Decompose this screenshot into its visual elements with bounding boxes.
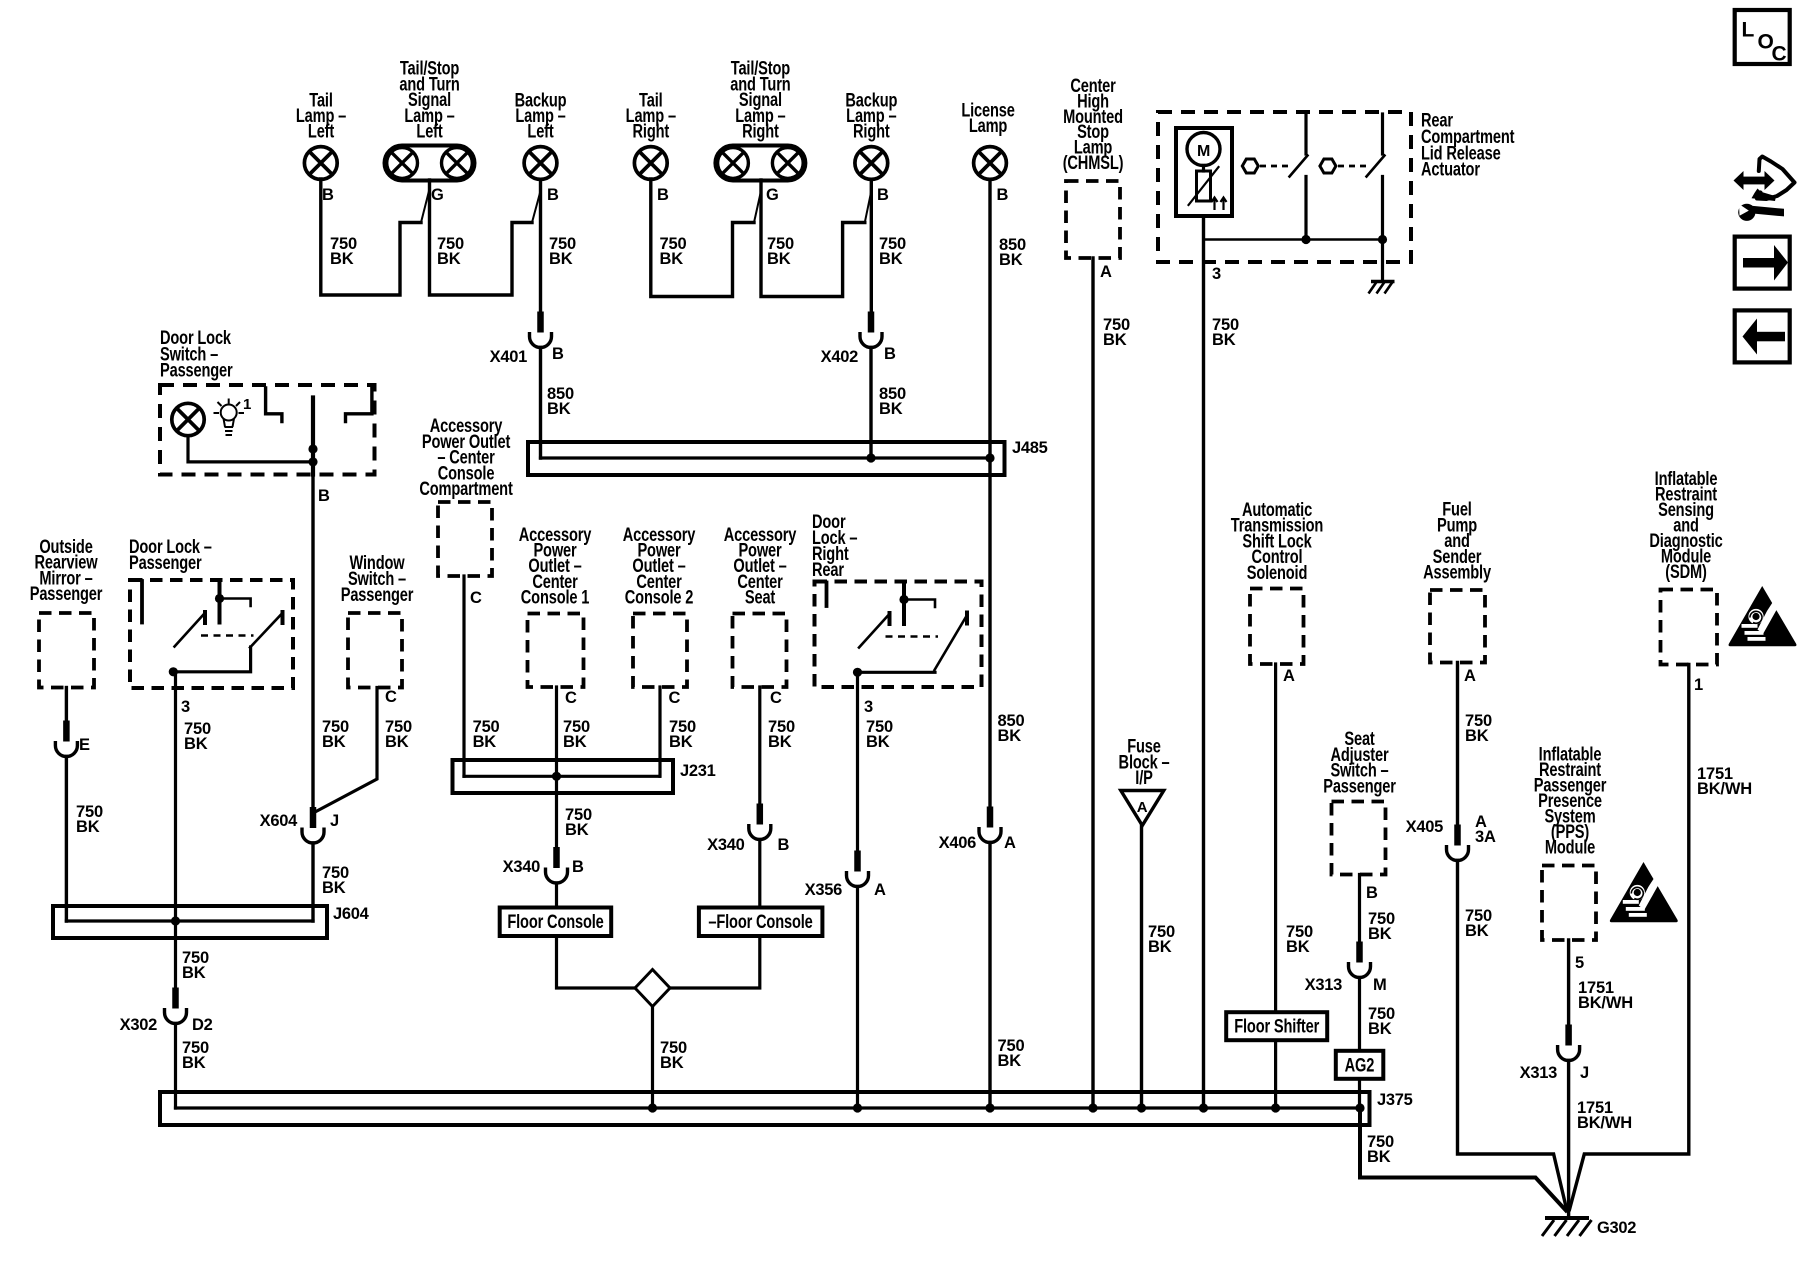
junction dot J375 x=1275	[1271, 1103, 1280, 1112]
junction dot door lock common	[169, 667, 178, 676]
svg-text:BK/WH: BK/WH	[1697, 780, 1752, 798]
svg-text:Console 2: Console 2	[625, 585, 693, 608]
svg-text:BK/WH: BK/WH	[1577, 1114, 1632, 1132]
ground symbol actuator	[1371, 280, 1395, 284]
connector X604	[302, 807, 324, 843]
svg-text:Left: Left	[308, 119, 335, 142]
svg-text:BK: BK	[182, 1054, 206, 1072]
switch S2 upper wire	[1381, 114, 1384, 154]
svg-text:BK/WH: BK/WH	[1578, 994, 1633, 1012]
svg-text:X313: X313	[1305, 976, 1342, 994]
door lock passenger pole wire	[218, 581, 222, 623]
svg-text:BK: BK	[437, 250, 461, 268]
svg-text:X340: X340	[707, 836, 744, 854]
svg-text:BK: BK	[1368, 1020, 1392, 1038]
svg-text:Right: Right	[633, 119, 670, 142]
floor shifter label box	[1226, 1012, 1327, 1040]
junction dot door lock RR pole	[899, 595, 908, 604]
junction dot door lock RR common	[853, 668, 862, 677]
component window switch passenger box	[348, 613, 402, 688]
svg-text:B: B	[877, 186, 889, 204]
svg-text:Left: Left	[416, 120, 443, 143]
thermal protector in motor	[1197, 171, 1211, 201]
wire outlet console 1 through J231 to X340	[555, 687, 558, 852]
lamp E3 backup lamp left	[524, 147, 557, 180]
svg-text:BK: BK	[768, 733, 792, 751]
svg-text:3: 3	[864, 698, 873, 716]
svg-text:G302: G302	[1597, 1219, 1636, 1237]
svg-text:BK: BK	[660, 1054, 684, 1072]
component CHMSL box	[1066, 181, 1120, 258]
motor M1 circle	[1187, 133, 1220, 166]
svg-text:G: G	[766, 186, 779, 204]
wire tail lamp right to stop lamp	[651, 179, 754, 297]
wire outlet console 2 to J231	[658, 687, 661, 776]
svg-text:BK: BK	[669, 733, 693, 751]
door lock blade 2	[281, 612, 285, 623]
svg-text:–Floor Console: –Floor Console	[708, 910, 812, 933]
svg-text:L: L	[1742, 19, 1755, 42]
wire X302 to J375	[174, 1024, 177, 1109]
door lock RR pole wire	[902, 583, 906, 625]
svg-text:B: B	[318, 487, 330, 505]
svg-text:B: B	[884, 345, 896, 363]
wire actuator to ground	[1381, 240, 1384, 282]
svg-text:BK: BK	[330, 250, 354, 268]
svg-text:BK: BK	[1368, 925, 1392, 943]
svg-text:BK: BK	[1212, 331, 1236, 349]
svg-text:I/P: I/P	[1135, 766, 1152, 789]
component SDM box	[1661, 590, 1718, 665]
wire X401 to J485	[539, 348, 542, 459]
wire X405 to ground junction	[1458, 861, 1567, 1210]
door lock passenger left stub	[140, 581, 144, 623]
svg-text:Seat: Seat	[745, 585, 776, 608]
connector X406	[979, 807, 1001, 843]
svg-text:BK: BK	[999, 251, 1023, 269]
wire AG2 to J375	[1358, 1079, 1361, 1108]
svg-text:BK: BK	[76, 818, 100, 836]
door lock RR mechanical link	[886, 635, 939, 638]
connector X340 seat	[749, 804, 771, 840]
switch S1 dashed link	[1260, 165, 1289, 168]
svg-text:M: M	[1197, 143, 1210, 160]
junction dot J375 x=1093	[1088, 1103, 1097, 1112]
motor M1 box	[1176, 128, 1232, 216]
svg-text:J: J	[1580, 1064, 1589, 1082]
svg-text:Left: Left	[527, 119, 554, 142]
svg-text:1: 1	[1694, 676, 1703, 694]
LOC box icon	[1735, 10, 1790, 64]
wire X340 seat to floor console box	[758, 840, 761, 908]
svg-text:X356: X356	[805, 881, 842, 899]
connector X302	[165, 988, 187, 1024]
switch S1 lower wire	[1304, 177, 1307, 240]
direction arrows	[1212, 198, 1218, 211]
wire outlet compartment to J231	[462, 576, 465, 776]
junction dot J375 x=990	[985, 1103, 994, 1112]
svg-text:1: 1	[243, 396, 251, 413]
svg-text:BK: BK	[660, 250, 684, 268]
wire door lock passenger to J604	[174, 672, 177, 921]
switch S1 blade	[1290, 156, 1308, 177]
svg-text:Passenger: Passenger	[30, 582, 103, 605]
component door lock right rear box	[815, 582, 982, 688]
junction dot J604	[171, 916, 180, 925]
lamp E7 license lamp	[974, 147, 1007, 180]
junction dot pole upper	[308, 444, 317, 453]
wire tail lamp left to stop lamp	[321, 179, 421, 295]
svg-text:Rear: Rear	[812, 558, 844, 581]
left contact of switch	[266, 388, 282, 422]
switch S2 lower wire	[1381, 177, 1384, 240]
svg-text:J: J	[330, 812, 339, 830]
svg-text:G: G	[431, 186, 444, 204]
svg-text:AG2: AG2	[1345, 1053, 1375, 1076]
svg-text:X604: X604	[260, 812, 298, 830]
svg-text:X401: X401	[490, 348, 527, 366]
svg-text:BK: BK	[473, 733, 497, 751]
svg-text:BK: BK	[182, 964, 206, 982]
lamp E2 tail/stop and turn signal lamp left	[385, 146, 475, 181]
lamp E1 tail lamp left	[304, 147, 337, 180]
svg-text:Passenger: Passenger	[341, 583, 414, 606]
svg-text:BK: BK	[866, 733, 890, 751]
SRS warning triangle SDM	[1729, 586, 1797, 646]
previous page arrow icon	[1735, 310, 1790, 362]
wire floor console to splice	[557, 936, 638, 988]
svg-text:X302: X302	[120, 1016, 157, 1034]
wire SDM to ground junction	[1570, 665, 1689, 1210]
wire solenoid to J375	[1274, 664, 1277, 1108]
svg-text:C: C	[565, 689, 577, 707]
connector X340 console	[546, 847, 568, 883]
junction dot J231	[552, 772, 561, 781]
svg-text:BK: BK	[998, 1052, 1022, 1070]
door lock blade 1	[203, 612, 207, 623]
wire X340 to floor console box	[555, 883, 558, 908]
wire CHMSL to J375	[1091, 258, 1094, 1108]
junction dot S1	[1301, 235, 1310, 244]
wire motor down to J375	[1202, 216, 1205, 1108]
svg-text:Passenger: Passenger	[1323, 774, 1396, 797]
connector X313 J	[1558, 1025, 1580, 1061]
wire X402 to J485	[869, 348, 872, 459]
component seat adjuster switch box	[1332, 802, 1386, 875]
component outlet compartment box	[438, 502, 492, 576]
svg-text:BK: BK	[385, 733, 409, 751]
wire backup left down to X401	[539, 180, 542, 313]
svg-text:BK: BK	[565, 821, 589, 839]
svg-text:3: 3	[181, 698, 190, 716]
wire X604 to J604	[311, 843, 314, 921]
wire splice to J375	[651, 1007, 654, 1109]
junction dot J375 x=1360	[1355, 1103, 1364, 1112]
svg-text:Right: Right	[853, 119, 890, 142]
svg-text:5: 5	[1575, 954, 1584, 972]
component shift lock solenoid box	[1250, 589, 1304, 665]
lamp in door lock switch	[172, 403, 204, 435]
svg-text:BK: BK	[1465, 727, 1489, 745]
lamp E5 tail/stop and turn signal lamp right	[715, 146, 805, 181]
svg-text:B: B	[572, 858, 584, 876]
svg-text:Actuator: Actuator	[1421, 158, 1480, 181]
wire window switch to X604	[315, 688, 377, 813]
svg-text:BK: BK	[1286, 938, 1310, 956]
door lock pole branch	[220, 599, 251, 607]
right contact of switch	[346, 388, 372, 422]
junction dot pole lamp wire	[308, 457, 317, 466]
junction dot S2	[1378, 235, 1387, 244]
switch pole	[311, 398, 315, 475]
wire X356 to J375	[856, 887, 859, 1109]
fuse block triangle	[1121, 791, 1164, 826]
svg-text:J375: J375	[1377, 1091, 1413, 1109]
svg-text:A: A	[1464, 667, 1476, 685]
component fuel pump box	[1430, 590, 1485, 663]
svg-text:Lamp: Lamp	[969, 114, 1007, 137]
svg-text:X406: X406	[939, 834, 976, 852]
svg-text:X402: X402	[821, 348, 858, 366]
svg-text:BK: BK	[563, 733, 587, 751]
actuator internal bus wire	[1204, 238, 1383, 241]
wire license lamp down through J485	[988, 180, 991, 807]
junction block J604	[53, 906, 327, 938]
wire X406 to J375	[988, 843, 991, 1109]
svg-text:C: C	[470, 589, 482, 607]
svg-text:J231: J231	[680, 762, 716, 780]
wire J375 output to ground	[1360, 1108, 1566, 1211]
motor M1 stub	[1202, 166, 1205, 172]
svg-text:A: A	[874, 881, 886, 899]
SRS warning triangle PPS	[1610, 862, 1678, 922]
svg-text:Console 1: Console 1	[521, 585, 590, 608]
svg-text:C: C	[1772, 43, 1787, 66]
component outlet center seat box	[733, 614, 787, 688]
wire lamp to pole	[188, 436, 313, 462]
junction block J485	[528, 442, 1005, 475]
wire door lock RR to X356	[856, 673, 859, 861]
double arrow and wrench icon	[1734, 157, 1795, 221]
svg-text:BK: BK	[322, 879, 346, 897]
connector X313 M	[1349, 942, 1371, 978]
lamp E4 tail lamp right	[634, 147, 667, 180]
floor console label box 2	[699, 908, 823, 937]
door lock RR left stub	[825, 583, 829, 607]
svg-text:B: B	[547, 186, 559, 204]
svg-text:BK: BK	[998, 727, 1022, 745]
door lock RR common wire	[858, 671, 936, 674]
component outlet console 2 box	[633, 614, 687, 688]
wire backup right down to X402	[870, 180, 873, 313]
connector X402	[860, 312, 882, 348]
splice diamond	[635, 970, 670, 1007]
svg-text:Passenger: Passenger	[129, 551, 202, 574]
svg-text:B: B	[1366, 884, 1378, 902]
door lock RR blade 2	[965, 613, 969, 624]
svg-text:A: A	[1283, 667, 1295, 685]
lamp E6 backup lamp right	[855, 147, 888, 180]
component door lock passenger box	[130, 580, 293, 688]
svg-text:Right: Right	[742, 120, 779, 143]
svg-text:Passenger: Passenger	[160, 358, 233, 381]
component outside rearview mirror box	[39, 613, 94, 688]
wire seat adjuster to X313	[1358, 875, 1361, 956]
junction dot license on J485	[985, 453, 994, 462]
svg-text:BK: BK	[547, 400, 571, 418]
svg-text:B: B	[322, 186, 334, 204]
junction dot X402 on J485	[866, 453, 875, 462]
svg-text:3: 3	[1212, 265, 1221, 283]
svg-text:BK: BK	[1148, 938, 1172, 956]
wire PPS to X313 J	[1567, 940, 1570, 1038]
floor console label box	[500, 908, 612, 937]
svg-text:BK: BK	[1367, 1148, 1391, 1166]
switch S2 dashed link	[1338, 165, 1366, 168]
door lock RR blade 1	[888, 613, 892, 624]
svg-text:Compartment: Compartment	[419, 477, 513, 500]
svg-text:J604: J604	[333, 905, 370, 923]
svg-text:BK: BK	[322, 733, 346, 751]
svg-text:Floor Shifter: Floor Shifter	[1234, 1014, 1319, 1037]
svg-text:BK: BK	[879, 400, 903, 418]
svg-text:BK: BK	[1465, 922, 1489, 940]
svg-text:BK: BK	[767, 250, 791, 268]
svg-text:C: C	[385, 688, 397, 706]
junction dot J375 x=857	[853, 1103, 862, 1112]
junction dot J375 x=652	[648, 1103, 657, 1112]
bulb symbol	[214, 399, 245, 436]
component rear compartment lid release actuator box	[1158, 112, 1411, 262]
ground symbol G302	[1545, 1216, 1589, 1220]
svg-text:A: A	[1100, 263, 1112, 281]
svg-text:A: A	[1137, 799, 1148, 816]
door lock RR pole branch	[904, 600, 935, 608]
svg-text:J485: J485	[1012, 439, 1048, 457]
svg-text:BK: BK	[1103, 331, 1127, 349]
AG2 label box	[1336, 1051, 1384, 1079]
junction dot J375 x=1141	[1137, 1103, 1146, 1112]
svg-text:(SDM): (SDM)	[1665, 560, 1706, 583]
svg-text:X405: X405	[1406, 818, 1443, 836]
junction block J375	[160, 1092, 1370, 1125]
component outlet console 1 box	[528, 614, 584, 688]
svg-text:C: C	[669, 689, 681, 707]
junction dot door lock pole	[215, 594, 224, 603]
wire X313 J to ground	[1567, 1061, 1570, 1216]
junction block J231	[453, 760, 674, 793]
connector X401	[530, 312, 552, 348]
svg-text:BK: BK	[184, 735, 208, 753]
next page arrow icon	[1735, 237, 1790, 289]
wire fuel pump to X405	[1456, 663, 1459, 839]
svg-text:A: A	[1004, 834, 1016, 852]
svg-text:E: E	[79, 736, 90, 754]
svg-text:Module: Module	[1545, 835, 1595, 858]
svg-text:BK: BK	[879, 250, 903, 268]
svg-text:X313: X313	[1520, 1064, 1557, 1082]
door lock common wire	[173, 647, 250, 672]
switch S1 hex contact	[1242, 159, 1258, 173]
wire mirror connector to J604	[65, 757, 68, 922]
svg-text:Assembly: Assembly	[1423, 561, 1491, 584]
connector X356	[847, 851, 869, 887]
component PPS box	[1542, 866, 1596, 941]
wire stop/turn right to backup pin	[761, 180, 865, 297]
wire mirror to connector E	[65, 688, 68, 730]
svg-text:C: C	[770, 689, 782, 707]
svg-text:B: B	[778, 836, 790, 854]
component door lock switch passenger box	[160, 385, 375, 475]
connector X405	[1447, 825, 1469, 861]
wire J604 to X302	[174, 921, 177, 988]
svg-text:X340: X340	[503, 858, 540, 876]
connector E mirror	[55, 721, 77, 757]
svg-text:B: B	[552, 345, 564, 363]
junction dot J375 x=1203	[1199, 1103, 1208, 1112]
switch S2 blade	[1367, 156, 1385, 177]
svg-text:BK: BK	[549, 250, 573, 268]
door lock mechanical link	[201, 634, 254, 637]
svg-text:B: B	[657, 186, 669, 204]
wire door lock switch down	[311, 475, 314, 813]
svg-text:Floor Console: Floor Console	[507, 910, 603, 933]
svg-text:D2: D2	[192, 1016, 213, 1034]
svg-text:3A: 3A	[1475, 828, 1496, 846]
wire stop/turn left to backup pin	[430, 180, 533, 295]
svg-text:Solenoid: Solenoid	[1247, 561, 1307, 584]
wire floor console 2 to splice	[668, 936, 760, 988]
svg-text:B: B	[997, 186, 1009, 204]
switch S2 hex contact	[1320, 159, 1336, 173]
switch S1 upper wire	[1304, 114, 1307, 154]
wire X313 M to AG2	[1358, 978, 1361, 1051]
svg-text:(CHMSL): (CHMSL)	[1063, 151, 1124, 174]
wire outlet seat to X340	[758, 687, 761, 808]
svg-text:M: M	[1373, 976, 1386, 994]
wire fuse block to J375	[1140, 826, 1143, 1109]
